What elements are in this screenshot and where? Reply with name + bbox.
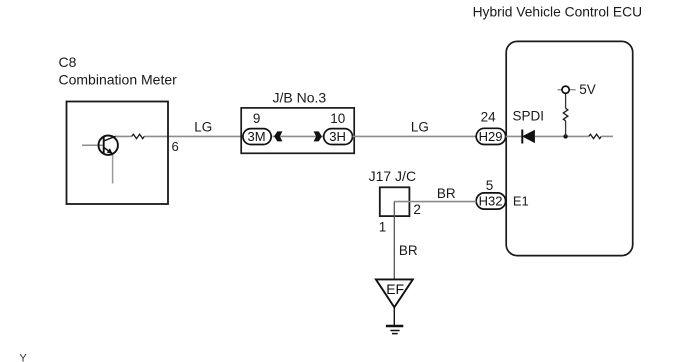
wire from H29 to diode	[506, 135, 522, 137]
pin 10 label	[330, 111, 345, 126]
junction connector J17 box	[380, 187, 410, 216]
svg-text:5: 5	[486, 178, 494, 193]
pin 6 label	[172, 139, 179, 154]
wire BR from J17 to H32	[394, 201, 476, 203]
wire after resistor	[601, 135, 613, 137]
wire label BR (vertical)	[399, 243, 418, 258]
pin 5 label	[486, 178, 494, 193]
wire from resistor to 5V terminal	[565, 93, 567, 108]
5V terminal	[558, 86, 576, 93]
label Hybrid Vehicle Control ECU	[473, 5, 642, 20]
svg-text:2: 2	[413, 202, 421, 217]
label Combination Meter	[59, 72, 178, 88]
ECU box	[506, 41, 633, 255]
wire LG from C8 pin 6 to J/B 3M	[115, 135, 243, 137]
label J17 J/C	[369, 168, 416, 184]
wire LG from 3H to ECU H29	[353, 135, 477, 137]
wire from EF to ground	[393, 307, 395, 325]
diode D1 (cathode left)	[522, 130, 535, 144]
label C8	[59, 54, 77, 70]
wire between 3M and 3H	[273, 135, 324, 137]
svg-text:J/B No.3: J/B No.3	[273, 90, 327, 106]
svg-text:H29: H29	[479, 129, 503, 144]
svg-text:H32: H32	[479, 194, 503, 209]
wire from junction up to pull-up resistor	[565, 121, 567, 137]
svg-text:1: 1	[379, 219, 387, 234]
svg-text:BR: BR	[399, 243, 418, 258]
pin 24 label	[481, 109, 497, 124]
svg-text:SPDI: SPDI	[513, 108, 545, 123]
wire label LG (left)	[194, 119, 212, 134]
junction block J/B No.3 box	[241, 108, 354, 153]
svg-text:3H: 3H	[329, 129, 346, 144]
arrow toward 3H	[314, 131, 322, 141]
svg-text:9: 9	[253, 111, 261, 126]
svg-text:5V: 5V	[579, 82, 596, 97]
pin 2 label	[413, 202, 421, 217]
svg-text:Hybrid Vehicle Control ECU: Hybrid Vehicle Control ECU	[473, 5, 642, 20]
combination meter box C8	[67, 102, 169, 205]
ground point EF triangle	[376, 279, 413, 307]
pull-up resistor (vertical)	[563, 108, 568, 120]
pin 9 label	[253, 111, 261, 126]
label 5V	[579, 82, 596, 97]
wire label LG (right)	[411, 119, 429, 134]
wire from diode to internal resistor	[535, 135, 589, 137]
svg-text:Combination Meter: Combination Meter	[59, 72, 178, 88]
label E1	[513, 194, 529, 209]
svg-text:LG: LG	[194, 119, 212, 134]
connector 3M	[243, 129, 271, 145]
svg-text:3M: 3M	[248, 129, 266, 144]
svg-text:Y: Y	[19, 353, 27, 362]
ground symbol	[386, 326, 403, 334]
transistor Q (inside combination meter)	[82, 136, 118, 184]
svg-text:6: 6	[172, 139, 179, 154]
svg-text:10: 10	[330, 111, 345, 126]
wire BR from J17 down to EF ground	[393, 202, 395, 280]
internal resistor (horizontal)	[589, 134, 601, 138]
svg-text:E1: E1	[513, 194, 529, 209]
pin 1 label	[379, 219, 387, 234]
svg-text:C8: C8	[59, 54, 77, 70]
svg-text:24: 24	[481, 109, 497, 124]
svg-text:BR: BR	[437, 186, 456, 201]
label J/B No.3	[273, 90, 327, 106]
svg-text:LG: LG	[411, 119, 429, 134]
connector H32	[476, 193, 505, 209]
wire label BR (horizontal)	[437, 186, 456, 201]
svg-text:J17 J/C: J17 J/C	[369, 168, 416, 184]
svg-text:EF: EF	[386, 281, 404, 297]
arrow toward 3M	[274, 131, 282, 141]
page marker Y	[19, 353, 27, 362]
junction node	[563, 134, 567, 138]
connector H29	[476, 128, 505, 144]
connector 3H	[324, 129, 353, 145]
resistor in combination meter	[132, 134, 145, 138]
label SPDI	[513, 108, 545, 123]
